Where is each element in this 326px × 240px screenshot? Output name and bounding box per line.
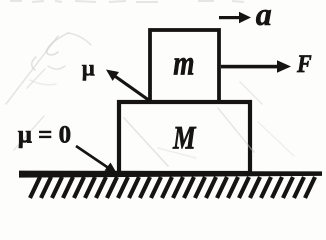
label m — [173, 43, 194, 82]
svg-text:μ: μ — [82, 55, 95, 80]
faint cut-off text remnants at top edge — [10, 1, 244, 2]
label M — [172, 120, 196, 156]
svg-text:M: M — [172, 120, 196, 156]
block M — [119, 102, 250, 173]
ground line — [19, 171, 322, 178]
svg-text:μ = 0: μ = 0 — [18, 122, 71, 149]
faint pencil scribble upper-left — [27, 33, 91, 88]
svg-text:a: a — [256, 0, 272, 32]
svg-text:m: m — [173, 43, 194, 82]
leader arrow to ground — [76, 146, 117, 174]
faint diagonal scan lines — [6, 36, 294, 168]
force F arrow — [221, 60, 291, 73]
label F — [296, 51, 312, 79]
svg-text:F: F — [296, 51, 312, 79]
faint pencil marks inside M — [124, 108, 252, 166]
friction arrow (mu) — [106, 70, 150, 102]
acceleration arrow — [219, 12, 251, 23]
ground hatching — [30, 177, 315, 198]
block m — [150, 30, 219, 102]
